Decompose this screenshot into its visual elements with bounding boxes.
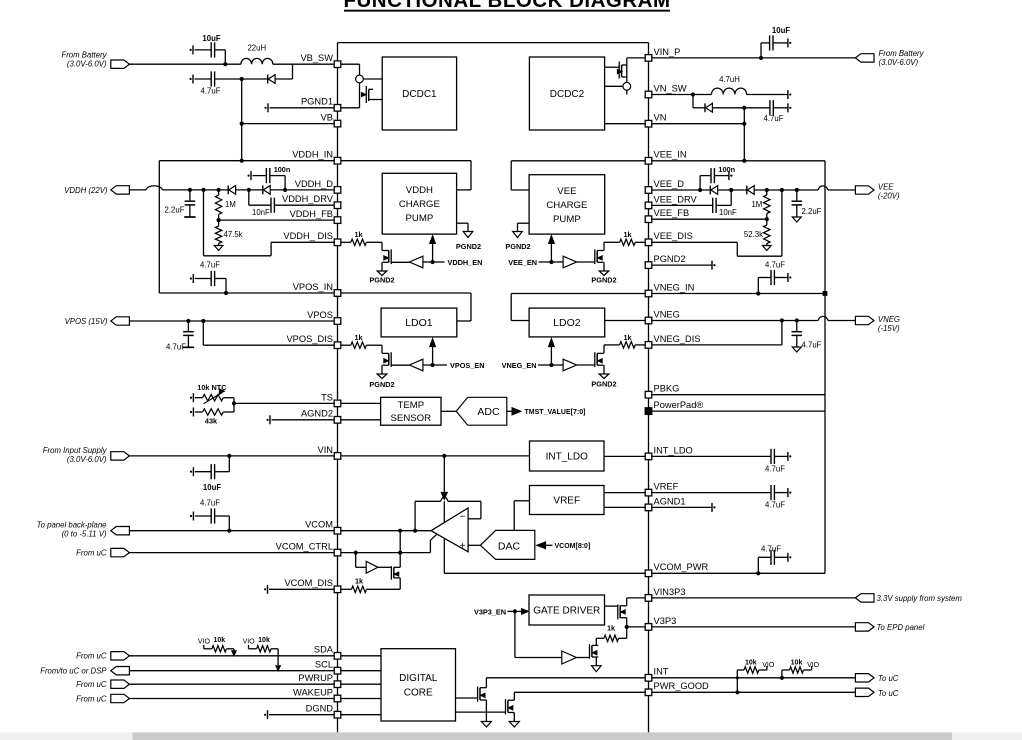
svg-text:TEMP: TEMP [397,400,424,411]
svg-text:3.3V supply from system: 3.3V supply from system [877,594,963,603]
svg-text:VN_SW: VN_SW [654,83,687,93]
svg-text:From Input Supply: From Input Supply [43,446,108,455]
svg-text:43k: 43k [205,416,218,425]
svg-text:To panel back-plane: To panel back-plane [37,520,108,529]
svg-text:PUMP: PUMP [553,214,581,225]
svg-text:VCOM[8:0]: VCOM[8:0] [555,543,591,550]
svg-text:1k: 1k [354,333,363,342]
svg-text:From uC: From uC [76,652,107,661]
svg-text:DAC: DAC [498,540,521,552]
svg-text:VDDH (22V): VDDH (22V) [64,186,108,195]
svg-text:PUMP: PUMP [406,213,434,224]
svg-text:VIO: VIO [807,662,820,669]
svg-text:1k: 1k [623,333,632,342]
svg-text:PowerPad®: PowerPad® [654,400,704,410]
svg-text:From uC: From uC [76,549,107,558]
svg-text:V3P3_EN: V3P3_EN [474,607,506,616]
svg-text:VCOM_CTRL: VCOM_CTRL [276,542,333,552]
svg-text:SCL: SCL [315,660,333,670]
svg-text:(3.0V-6.0V): (3.0V-6.0V) [879,58,919,67]
svg-text:AGND1: AGND1 [654,496,686,506]
svg-text:10nF: 10nF [719,208,737,217]
svg-text:VB: VB [321,113,333,123]
svg-text:VPOS_DIS: VPOS_DIS [286,334,333,344]
svg-text:VCOM: VCOM [305,520,333,530]
svg-text:+: + [460,541,466,552]
svg-text:VEE: VEE [878,183,894,192]
svg-text:VIN: VIN [318,445,334,455]
svg-text:PWRUP: PWRUP [298,673,333,683]
svg-text:VDDH_FB: VDDH_FB [290,209,333,219]
svg-text:VREF: VREF [654,482,679,492]
svg-text:1k: 1k [607,624,616,633]
svg-text:VNEG: VNEG [878,315,900,324]
svg-text:4.7uF: 4.7uF [765,261,785,270]
svg-text:1M: 1M [751,200,762,209]
svg-text:DGND: DGND [306,704,334,714]
svg-text:DCDC2: DCDC2 [550,89,585,100]
svg-text:VDDH_D: VDDH_D [295,179,334,189]
svg-text:PGND2: PGND2 [456,242,481,251]
svg-text:CORE: CORE [404,688,433,699]
svg-text:52.3k: 52.3k [744,230,763,239]
svg-text:DIGITAL: DIGITAL [399,673,438,684]
svg-text:VNEG: VNEG [654,309,680,319]
svg-text:INT: INT [654,667,669,677]
svg-text:VDDH_DRV: VDDH_DRV [282,194,334,204]
svg-text:VEE: VEE [557,186,576,197]
svg-text:10k: 10k [791,659,803,666]
svg-text:CHARGE: CHARGE [399,199,440,210]
svg-text:From uC: From uC [76,694,107,703]
svg-text:1k: 1k [355,577,364,586]
svg-text:PGND2: PGND2 [505,242,530,251]
svg-text:4.7uF: 4.7uF [200,261,220,270]
svg-text:PBKG: PBKG [654,384,680,394]
svg-text:To EPD panel: To EPD panel [877,623,925,632]
svg-text:VCOM_PWR: VCOM_PWR [654,562,709,572]
svg-text:VIN3P3: VIN3P3 [654,587,686,597]
svg-text:DCDC1: DCDC1 [402,89,437,100]
svg-text:1k: 1k [623,230,632,239]
svg-text:47.5k: 47.5k [224,230,243,239]
svg-text:WAKEUP: WAKEUP [293,687,333,697]
svg-text:LDO2: LDO2 [553,317,581,329]
svg-text:(-15V): (-15V) [878,324,900,333]
svg-text:VEE_DRV: VEE_DRV [654,194,698,204]
svg-text:VN: VN [654,113,667,123]
svg-text:4.7uF: 4.7uF [765,464,785,473]
svg-text:PGND2: PGND2 [591,276,616,285]
svg-text:PWR_GOOD: PWR_GOOD [654,681,710,691]
svg-text:1k: 1k [354,230,363,239]
svg-text:(3.0V-6.0V): (3.0V-6.0V) [67,455,107,464]
svg-text:VEE_IN: VEE_IN [654,150,687,160]
svg-text:4.7uF: 4.7uF [201,87,221,96]
svg-text:10nF: 10nF [252,208,270,217]
svg-text:100n: 100n [718,165,735,174]
svg-text:VIO: VIO [198,638,211,645]
svg-text:VDDH: VDDH [406,185,433,196]
svg-text:SDA: SDA [314,645,334,655]
svg-text:VNEG_DIS: VNEG_DIS [654,334,701,344]
svg-text:10k: 10k [258,637,270,644]
svg-text:1M: 1M [225,200,236,209]
svg-text:VEE_EN: VEE_EN [508,258,537,267]
svg-text:4.7uF: 4.7uF [765,501,785,510]
svg-text:10k NTC: 10k NTC [197,383,227,392]
svg-text:From Battery: From Battery [879,49,925,58]
svg-text:PGND2: PGND2 [654,254,686,264]
svg-text:2.2uF: 2.2uF [165,205,185,214]
svg-text:(3.0V-6.0V): (3.0V-6.0V) [67,60,107,69]
svg-text:10k: 10k [745,659,757,666]
svg-text:VREF: VREF [553,496,580,507]
svg-text:4.7uH: 4.7uH [719,75,740,84]
svg-text:TS: TS [321,392,333,402]
svg-text:VEE_DIS: VEE_DIS [654,231,693,241]
svg-text:VNEG_EN: VNEG_EN [502,361,537,370]
svg-text:To uC: To uC [878,674,899,683]
svg-text:VIO: VIO [762,662,775,669]
svg-text:From/to uC or DSP: From/to uC or DSP [40,667,107,676]
svg-text:FUNCTIONAL BLOCK DIAGRAM: FUNCTIONAL BLOCK DIAGRAM [343,0,670,12]
svg-text:VPOS (15V): VPOS (15V) [65,317,108,326]
svg-text:10uF: 10uF [202,34,220,43]
svg-text:4.7uF: 4.7uF [802,341,822,350]
svg-text:VPOS_IN: VPOS_IN [293,282,333,292]
svg-text:PGND1: PGND1 [301,97,333,107]
svg-text:10k: 10k [213,637,225,644]
svg-text:4.7uF: 4.7uF [200,498,220,507]
svg-text:VDDH_EN: VDDH_EN [448,258,483,267]
svg-text:ADC: ADC [477,406,500,418]
svg-text:PGND2: PGND2 [369,380,394,389]
svg-text:VDDH_ DIS: VDDH_ DIS [283,231,333,241]
svg-text:VNEG_IN: VNEG_IN [654,282,695,292]
svg-text:SENSOR: SENSOR [391,413,432,424]
svg-text:VPOS_EN: VPOS_EN [450,361,484,370]
svg-text:LDO1: LDO1 [405,317,433,329]
svg-text:100n: 100n [274,165,291,174]
svg-text:PGND2: PGND2 [369,276,394,285]
svg-text:INT_LDO: INT_LDO [546,452,588,463]
svg-text:TMST_VALUE[7:0]: TMST_VALUE[7:0] [525,409,586,416]
svg-text:−: − [460,512,466,523]
svg-text:VCOM_DIS: VCOM_DIS [284,578,333,588]
svg-text:10uF: 10uF [772,26,790,35]
svg-text:(-20V): (-20V) [878,192,900,201]
svg-text:VDDH_IN: VDDH_IN [292,150,333,160]
svg-text:From Battery: From Battery [61,51,107,60]
svg-text:VB_SW: VB_SW [300,53,333,63]
svg-text:4.7uF: 4.7uF [166,342,186,351]
svg-text:CHARGE: CHARGE [546,200,587,211]
svg-text:VIN_P: VIN_P [654,47,681,57]
svg-text:AGND2: AGND2 [301,409,333,419]
svg-text:INT_LDO: INT_LDO [654,445,693,455]
svg-text:VEE_FB: VEE_FB [654,208,690,218]
svg-text:VEE_D: VEE_D [654,179,685,189]
svg-text:2.2uF: 2.2uF [802,207,822,216]
svg-text:4.7uF: 4.7uF [764,114,784,123]
svg-text:VIO: VIO [243,638,256,645]
svg-text:4.7uF: 4.7uF [761,545,781,554]
svg-text:To uC: To uC [878,689,899,698]
svg-text:10uF: 10uF [203,483,221,492]
svg-text:VPOS: VPOS [307,310,333,320]
svg-text:22uH: 22uH [247,44,266,53]
svg-text:PGND2: PGND2 [591,380,616,389]
svg-text:From uC: From uC [76,680,107,689]
svg-text:V3P3: V3P3 [654,616,677,626]
svg-text:(0 to -5.11 V): (0 to -5.11 V) [62,529,107,538]
svg-text:GATE DRIVER: GATE DRIVER [533,606,600,617]
